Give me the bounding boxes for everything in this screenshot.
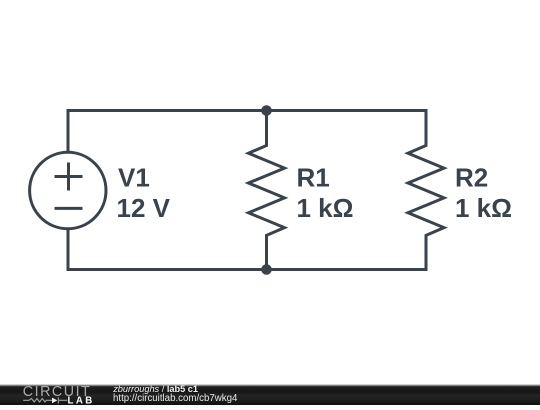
svg-text:12 V: 12 V <box>117 193 171 223</box>
svg-text:R1: R1 <box>297 163 330 193</box>
V1 plus sign <box>56 164 81 189</box>
logo resistor zigzag and diode <box>23 397 67 403</box>
resistor R2 <box>408 111 444 270</box>
wire top rail (node A) <box>68 111 426 151</box>
logo diode triangle <box>52 398 57 404</box>
resistor R1 <box>249 111 285 270</box>
footer bar <box>0 384 540 405</box>
junction node bottom <box>261 264 272 275</box>
V1 minus sign <box>56 207 81 210</box>
svg-text:LAB: LAB <box>68 395 95 405</box>
wire bottom rail (node B) <box>68 231 426 270</box>
svg-text:http://circuitlab.com/cb7wkg4: http://circuitlab.com/cb7wkg4 <box>113 393 238 404</box>
svg-text:1 kΩ: 1 kΩ <box>297 193 354 223</box>
voltage source V1 circle <box>30 152 106 228</box>
junction node top <box>261 105 272 116</box>
svg-text:R2: R2 <box>455 163 488 193</box>
svg-text:1 kΩ: 1 kΩ <box>455 193 512 223</box>
svg-text:V1: V1 <box>118 163 150 193</box>
